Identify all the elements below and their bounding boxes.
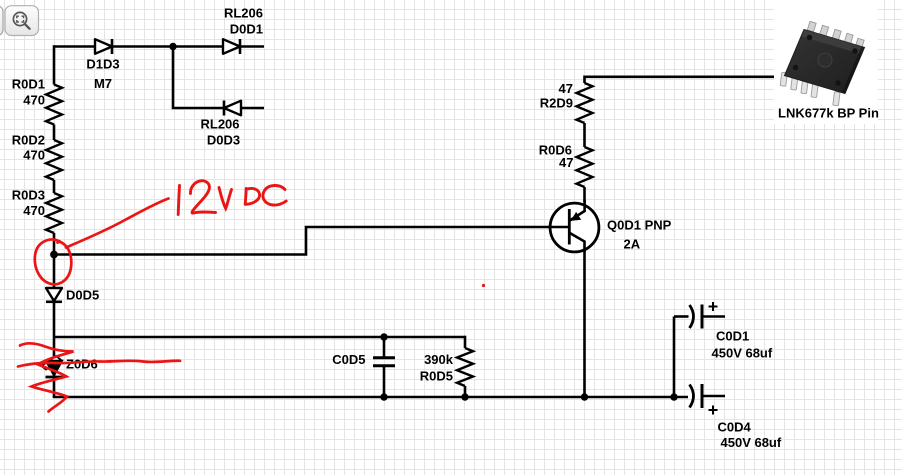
red dot: [482, 284, 485, 287]
svg-text:470: 470: [23, 93, 45, 108]
svg-text:47: 47: [559, 155, 573, 170]
svg-text:C0D4: C0D4: [718, 420, 752, 435]
red annotation 12V DC handwriting: [178, 181, 286, 215]
wire R0D3 to node B: [53, 233, 56, 255]
svg-text:D1D3: D1D3: [86, 57, 119, 72]
wire R0D5 top lead: [464, 336, 467, 348]
junction node capacitor riser: [670, 393, 677, 400]
wire Q0D1 collector to bottom rail: [583, 250, 586, 397]
svg-text:R0D5: R0D5: [420, 369, 453, 384]
svg-text:RL206: RL206: [224, 6, 263, 21]
resistor R0D2: [12, 133, 62, 181]
red annotation scribble over Z0D6: [18, 343, 180, 411]
wire node B down to D0D5: [53, 255, 56, 289]
svg-text:R0D3: R0D3: [12, 188, 45, 203]
junction node C0D5 top: [380, 333, 387, 340]
transistor Q0D1 PNP 2A: [548, 200, 672, 252]
wire between R0D6 and R2D9: [583, 123, 586, 147]
svg-text:Q0D1 PNP: Q0D1 PNP: [607, 218, 672, 233]
zoom button: [5, 6, 39, 36]
svg-text:R0D1: R0D1: [12, 77, 45, 92]
wire top rail from node A to D0D1 stub: [54, 45, 264, 48]
svg-text:C0D1: C0D1: [716, 329, 749, 344]
wire emitter column to R0D6: [583, 187, 586, 202]
junction node collector at bottom rail: [581, 393, 588, 400]
chip photo LNK677k: [774, 0, 879, 124]
wire between R0D2 and R0D3: [53, 180, 56, 193]
capacitor C0D1 450V 68uf: [674, 302, 773, 361]
svg-text:390k: 390k: [424, 352, 454, 367]
svg-text:D0D1: D0D1: [230, 22, 263, 37]
wire left column top (node A down to R0D1): [53, 45, 56, 84]
junction node on top rail: [169, 43, 176, 50]
toolbar partial button at left edge: [0, 6, 3, 36]
svg-text:D0D5: D0D5: [66, 288, 99, 303]
svg-text:47: 47: [559, 81, 573, 96]
wire bottom rail: [53, 396, 688, 399]
resistor R0D3: [12, 188, 62, 234]
wire mid rail: [54, 336, 465, 339]
junction node C0D5 bottom: [380, 393, 387, 400]
wire between R0D1 and R0D2: [53, 125, 56, 141]
wire base link from node B to Q0D1 base: [54, 227, 550, 255]
resistor R0D1: [12, 77, 62, 125]
svg-text:M7: M7: [94, 76, 112, 91]
wire branch from node at top rail down and right to D0D3: [173, 47, 264, 109]
wire D0D5 to bottom rail through Z0D6: [53, 302, 56, 398]
diode RL206 D0D3: [200, 101, 241, 148]
wire R2D9 top rail to chip LNK677k: [585, 76, 786, 84]
svg-text:2A: 2A: [624, 237, 641, 252]
junction node B below R0D3: [50, 251, 58, 259]
zener Z0D6: [42, 356, 98, 377]
capacitor C0D4 450V 68uf: [690, 384, 782, 450]
svg-text:450V 68uf: 450V 68uf: [721, 435, 782, 450]
diode D0D5: [46, 288, 99, 303]
svg-text:D0D3: D0D3: [207, 133, 240, 148]
svg-text:LNK677k BP Pin: LNK677k BP Pin: [778, 106, 879, 121]
svg-text:470: 470: [23, 148, 45, 163]
diode RL206 D0D1: [223, 6, 263, 55]
diode D1D3 M7: [86, 39, 119, 91]
capacitor C0D5: [332, 337, 395, 397]
wire R0D5 bottom lead: [464, 386, 467, 397]
junction node R0D5 bottom: [461, 393, 468, 400]
svg-text:R0D2: R0D2: [12, 133, 45, 148]
resistor R2D9 47: [540, 81, 593, 123]
svg-text:C0D5: C0D5: [332, 352, 365, 367]
red annotation circle around node B: [35, 240, 72, 285]
resistor R0D5 390k: [420, 348, 473, 386]
svg-text:470: 470: [23, 203, 45, 218]
svg-text:RL206: RL206: [200, 117, 239, 132]
svg-text:R2D9: R2D9: [540, 96, 573, 111]
resistor R0D6 47: [539, 143, 593, 188]
wire riser to C0D1: [673, 317, 676, 398]
red annotation leader line: [66, 199, 169, 248]
svg-text:450V 68uf: 450V 68uf: [712, 346, 773, 361]
